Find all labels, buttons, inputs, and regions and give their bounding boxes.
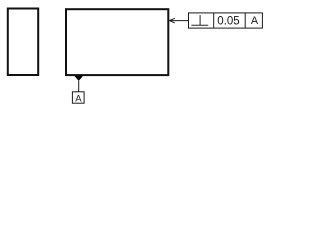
leader wire from feature control frame [170,20,189,22]
datum feature symbol box [72,92,84,103]
svg-text:A: A [75,94,82,105]
FCF cell divider 1 [213,13,215,28]
main part rectangle [66,9,168,75]
left part rectangle [8,9,38,76]
svg-text:0.05: 0.05 [217,15,239,27]
feature control frame box [189,13,263,28]
FCF cell divider 2 [244,13,246,28]
svg-text:A: A [251,15,259,27]
perpendicularity symbol [191,15,208,25]
datum triangle [74,76,83,81]
leader arrowhead [169,18,174,23]
datum stem wire [78,81,80,92]
